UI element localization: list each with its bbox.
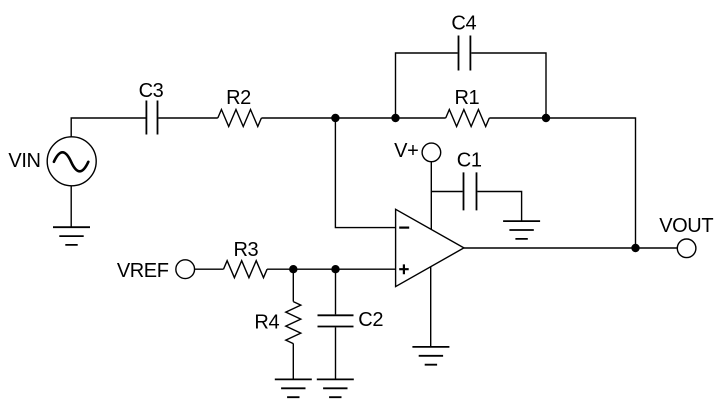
svg-text:C4: C4	[451, 12, 476, 34]
svg-text:V+: V+	[394, 140, 418, 162]
svg-text:C1: C1	[457, 150, 482, 172]
svg-text:VIN: VIN	[8, 150, 40, 172]
svg-text:VREF: VREF	[117, 260, 169, 282]
svg-text:R3: R3	[234, 239, 259, 261]
svg-text:R1: R1	[455, 87, 480, 109]
svg-text:C3: C3	[139, 80, 164, 102]
svg-text:VOUT: VOUT	[659, 215, 713, 237]
svg-text:R4: R4	[254, 311, 279, 333]
svg-text:R2: R2	[226, 87, 251, 109]
svg-text:C2: C2	[358, 309, 383, 331]
